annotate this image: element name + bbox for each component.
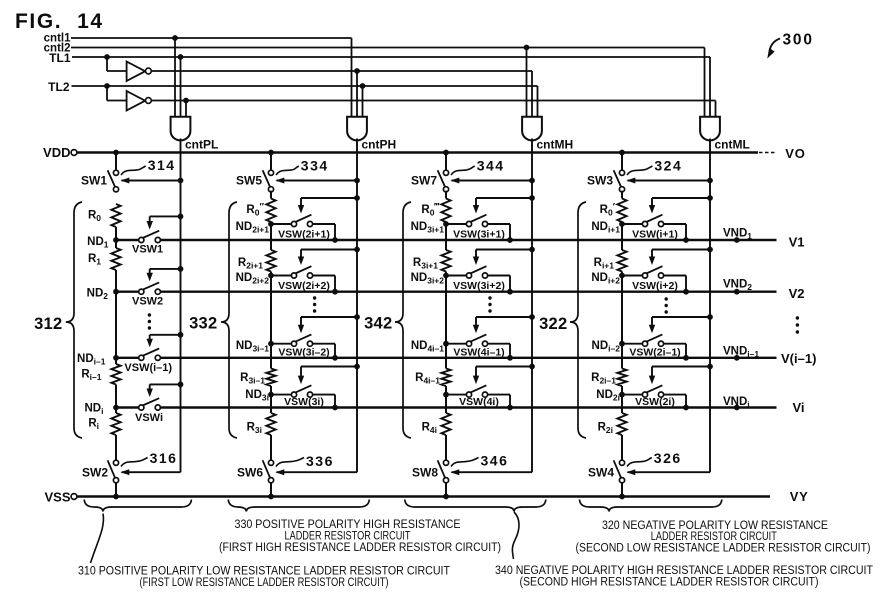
control tap cntML to VSW(2i-1) xyxy=(707,314,713,320)
wire VDD to switch SW1 xyxy=(115,153,117,171)
svg-text:R4i–1: R4i–1 xyxy=(415,372,440,386)
wire VSW(4i-1) to output line xyxy=(488,343,510,345)
control tap cntPL to VSW2 xyxy=(178,266,184,272)
resistor R0'' column 2 xyxy=(266,199,275,223)
wire VSW(2i-1) to output line xyxy=(664,343,686,345)
svg-text:ND3i+2: ND3i+2 xyxy=(411,272,445,286)
node ND3i+2 xyxy=(443,273,449,279)
leader for 326 xyxy=(627,458,652,467)
wire TL2 xyxy=(72,85,538,87)
resistor R0''' column 3 xyxy=(441,199,450,223)
svg-text:ND4i–1: ND4i–1 xyxy=(411,340,444,354)
leader for 316 xyxy=(121,458,148,467)
wire output line V(i&#8211;1) xyxy=(116,357,139,359)
wire output line Vi xyxy=(116,406,139,408)
group brace 322 xyxy=(570,202,586,438)
resistor R0' column 4 xyxy=(617,199,626,223)
svg-text:Ri–1: Ri–1 xyxy=(81,369,101,383)
wire VSW(2i) to output line xyxy=(664,394,686,396)
wire gate G4 input 1 from cntl2 xyxy=(704,48,706,118)
AND gate cntML xyxy=(700,117,720,141)
svg-text:VSW(4i): VSW(4i) xyxy=(459,396,499,408)
wire gate G2 input 2 xyxy=(356,71,358,118)
node column 3 row 4 xyxy=(443,392,449,398)
leader for 310 xyxy=(91,514,104,564)
svg-text:SW8: SW8 xyxy=(412,466,438,480)
svg-text:(FIRST LOW RESISTANCE LADDER R: (FIRST LOW RESISTANCE LADDER RESISTOR CI… xyxy=(140,577,389,589)
svg-text:cntPH: cntPH xyxy=(362,138,397,152)
wire VSW(3i-2) to output line xyxy=(313,343,335,345)
wire output line V1 xyxy=(116,239,139,241)
svg-text:342: 342 xyxy=(364,315,392,333)
wire TL1-inverted output xyxy=(151,70,532,72)
svg-text:326: 326 xyxy=(654,450,682,466)
svg-text:R3i: R3i xyxy=(247,422,262,436)
svg-text:300: 300 xyxy=(783,32,814,49)
junction VSS to ladder column 2 xyxy=(268,494,274,500)
wire chain column 2 top segment xyxy=(270,191,272,199)
control tap cntPH to VSW(2i+1) xyxy=(354,195,360,201)
junction VSW(4i-1) output xyxy=(507,355,513,361)
control tap cntMH to VSW(4i-1) xyxy=(529,314,535,320)
junction VSW(3i+1) output xyxy=(507,237,513,243)
svg-text:VSW(3i+2): VSW(3i+2) xyxy=(453,280,505,292)
svg-text:VNDi–1: VNDi–1 xyxy=(723,346,759,360)
switch VSW(i-1) xyxy=(139,355,144,360)
control tap cntMH to VSW(3i+1) xyxy=(529,195,535,201)
ellipsis dots column 2 xyxy=(313,296,316,299)
wire VSW(3i+1) to output line xyxy=(488,223,510,225)
svg-text:340 NEGATIVE POLARITY HIGH RES: 340 NEGATIVE POLARITY HIGH RESISTANCE LA… xyxy=(495,565,873,577)
control arrow cntMH to SW8 xyxy=(452,471,533,473)
inverter U2 xyxy=(127,91,146,111)
resistor R3i-1 column 2 xyxy=(266,369,275,387)
wire control bus cntPH from gate output xyxy=(356,139,358,473)
switch VSW(4i) xyxy=(446,394,466,396)
svg-text:VSW2: VSW2 xyxy=(132,296,163,308)
resistor R2i+1 column 2 xyxy=(266,250,275,272)
node VND2 xyxy=(734,289,740,295)
control arrow cntML to SW3 xyxy=(707,178,713,184)
node ND3i+1 xyxy=(443,221,449,227)
wire gate G4 input 3 from TL2-inverted xyxy=(715,101,717,118)
wire VSW(i+1) to output line xyxy=(664,223,686,225)
junction VSS to ladder column 4 xyxy=(619,494,625,500)
svg-text:NDi+2: NDi+2 xyxy=(591,272,620,286)
svg-text:Ri+1: Ri+1 xyxy=(594,257,615,271)
svg-text:R2i–1: R2i–1 xyxy=(591,372,616,386)
wire switch SW8 to VSS xyxy=(445,483,447,497)
svg-text:VSW(3i): VSW(3i) xyxy=(284,396,324,408)
control tap cntPH to VSW(2i+2) xyxy=(354,247,360,253)
resistor R0 column 1 xyxy=(111,204,120,227)
wire VSW(2i+1) to output line xyxy=(313,223,335,225)
svg-text:322: 322 xyxy=(539,315,567,333)
wire gate G3 input 3 from TL2 xyxy=(537,86,539,118)
svg-text:VSW(3i+1): VSW(3i+1) xyxy=(453,229,505,241)
switch VSW(3i) xyxy=(271,394,291,396)
svg-text:R3i+1: R3i+1 xyxy=(413,257,438,271)
wire gate G2 input 1 from cntl1 xyxy=(351,38,353,118)
wire TL2-inverted output xyxy=(151,100,715,102)
junction VSW(2i+2) output xyxy=(332,289,338,295)
svg-text:NDi–1: NDi–1 xyxy=(77,353,106,367)
control tap cntML to VSW(i+2) xyxy=(707,247,713,253)
junction VDD to ladder column 4 xyxy=(619,150,625,156)
svg-text:SW5: SW5 xyxy=(236,174,262,188)
node ND2i+2 xyxy=(268,273,274,279)
svg-text:(SECOND HIGH RESISTANCE LADDER: (SECOND HIGH RESISTANCE LADDER RESISTOR … xyxy=(520,576,819,588)
wire chain column 2 segment b xyxy=(270,272,272,369)
svg-text:VSW(i+2): VSW(i+2) xyxy=(632,280,678,292)
svg-text:ND3i: ND3i xyxy=(245,389,269,403)
wire chain bottom to switch SW2 xyxy=(115,435,117,460)
switch VSW(3i-2) xyxy=(271,343,291,345)
node ND2i xyxy=(619,392,625,398)
svg-text:R2i+1: R2i+1 xyxy=(238,257,263,271)
svg-text:R0′: R0′ xyxy=(600,202,616,218)
svg-text:R0: R0 xyxy=(88,210,101,224)
junction TL2-inverted to gate G1 xyxy=(183,98,189,104)
leader for 324 xyxy=(627,166,652,175)
under-brace for 320 xyxy=(580,500,722,512)
svg-text:ND2: ND2 xyxy=(87,288,109,302)
wire chain column 4 top segment xyxy=(621,191,623,199)
svg-text:TL2: TL2 xyxy=(48,80,70,94)
svg-text:FIG. 14: FIG. 14 xyxy=(15,10,104,33)
control tap cntML to VSW(i+1) xyxy=(707,195,713,201)
junction TL1-inverted to gate G2 xyxy=(354,68,360,74)
node VNDi xyxy=(734,405,740,411)
junction TL1 to inverter U1 xyxy=(104,54,110,60)
ellipsis dots right side xyxy=(796,316,799,319)
junction VSW(i+1) output xyxy=(683,237,689,243)
svg-text:V2: V2 xyxy=(789,286,805,301)
control tap cntPH to VSW(3i) xyxy=(354,364,360,370)
control arrow cntPL to SW1 xyxy=(178,178,184,184)
wire control bus cntML from gate output xyxy=(709,139,711,473)
resistor R4i column 3 xyxy=(441,413,450,435)
leader arrow for 300 xyxy=(770,39,781,53)
switch VSWi xyxy=(139,405,144,410)
svg-text:cntML: cntML xyxy=(715,138,750,152)
svg-text:TL1: TL1 xyxy=(49,51,71,65)
svg-text:314: 314 xyxy=(148,157,176,173)
wire chain bottom to switch SW6 xyxy=(270,435,272,460)
control arrow cntPH to SW6 xyxy=(277,471,358,473)
node NDi xyxy=(113,405,119,411)
wire chain column 1 segment Ri-1-Ri xyxy=(115,385,117,414)
wire VSW(2i+2) to output line xyxy=(313,275,335,277)
switch VSW(3i+1) xyxy=(446,223,466,225)
svg-text:ND2i+2: ND2i+2 xyxy=(236,272,270,286)
resistor R1 column 1 xyxy=(111,248,120,270)
switch VSW(2i+2) xyxy=(271,275,291,277)
wire gate G3 input 1 xyxy=(526,48,528,118)
inverter U1 xyxy=(127,62,146,82)
svg-text:V(i–1): V(i–1) xyxy=(781,351,816,366)
svg-text:VO: VO xyxy=(785,146,805,161)
wire switch SW4 to VSS xyxy=(621,483,623,497)
wire chain column 3 top segment xyxy=(445,191,447,199)
leader for 346 xyxy=(451,458,479,467)
junction VSS to ladder column 3 xyxy=(443,494,449,500)
ellipsis dots column 4 xyxy=(665,297,668,300)
svg-text:VSW(i–1): VSW(i–1) xyxy=(124,362,172,374)
wire chain column 4 segment b xyxy=(621,272,623,369)
switch VSW(i+1) xyxy=(622,223,642,225)
svg-text:ND3i–1: ND3i–1 xyxy=(236,340,269,354)
wire control bus cntPL from gate output xyxy=(180,139,182,473)
junction TL1 to gate G1 xyxy=(178,54,184,60)
wire TL1 to inverter U1 input xyxy=(106,57,108,71)
node NDi+2 xyxy=(619,273,625,279)
junction cntl1 to gate G1 xyxy=(172,35,178,41)
resistor R3i column 2 xyxy=(266,413,275,435)
wire VDD to switch SW3 xyxy=(621,153,623,171)
node ND4i-1 xyxy=(443,341,449,347)
svg-text:R1: R1 xyxy=(88,253,101,267)
wire control bus cntMH from gate output xyxy=(531,139,533,473)
wire chain column 1 segment R0-R1 xyxy=(115,227,117,248)
wire cntl1 xyxy=(71,37,352,39)
wire switch SW2 to VSS xyxy=(115,483,117,497)
junction TL2 to gate G2 xyxy=(360,83,366,89)
svg-text:312: 312 xyxy=(34,315,62,333)
svg-text:VSW(2i+2): VSW(2i+2) xyxy=(278,280,330,292)
AND gate cntMH xyxy=(522,117,542,141)
node ND2i+1 xyxy=(268,221,274,227)
group brace 342 xyxy=(395,202,411,438)
resistor R2i column 4 xyxy=(617,413,626,435)
svg-text:SW7: SW7 xyxy=(411,174,437,188)
svg-text:VSW1: VSW1 xyxy=(132,244,163,256)
terminal VSS xyxy=(71,494,77,500)
svg-text:V1: V1 xyxy=(789,235,805,250)
wire VSW(3i) to output line xyxy=(313,394,335,396)
control tap cntPL to VSWi xyxy=(178,382,184,388)
svg-text:SW3: SW3 xyxy=(587,174,613,188)
svg-text:SW1: SW1 xyxy=(81,174,107,188)
wire chain bottom to switch SW4 xyxy=(621,435,623,460)
switch VSW(i+2) xyxy=(622,275,642,277)
junction VSW(i+2) output xyxy=(683,289,689,295)
node ND3i xyxy=(268,392,274,398)
svg-text:ND3i+1: ND3i+1 xyxy=(411,221,445,235)
node ND3i-1 xyxy=(268,341,274,347)
junction VDD to ladder column 3 xyxy=(443,150,449,156)
svg-text:R0″: R0″ xyxy=(246,202,264,218)
node NDi-2 xyxy=(619,341,625,347)
under-brace for 340 xyxy=(405,500,546,512)
svg-text:VSW(4i–1): VSW(4i–1) xyxy=(453,346,504,358)
node VND1 xyxy=(734,237,740,243)
leader for 336 xyxy=(276,458,304,467)
svg-text:336: 336 xyxy=(306,453,334,469)
wire chain column 3 segment a xyxy=(445,222,447,250)
switch VSW(2i+1) xyxy=(271,223,291,225)
svg-text:R2i: R2i xyxy=(598,422,613,436)
ellipsis dots column 1 xyxy=(148,313,151,316)
svg-text:332: 332 xyxy=(189,315,217,333)
switch VSW1 xyxy=(139,237,144,242)
node ND2 xyxy=(113,289,119,295)
junction VDD to ladder column 2 xyxy=(268,150,274,156)
svg-text:(FIRST HIGH RESISTANCE LADDER: (FIRST HIGH RESISTANCE LADDER RESISTOR C… xyxy=(219,542,501,554)
leader for 340 xyxy=(512,512,519,559)
switch VSW(4i-1) xyxy=(446,343,466,345)
wire cntl2 xyxy=(71,47,705,49)
switch SW8 xyxy=(443,460,448,465)
junction VSW(2i+1) output xyxy=(332,237,338,243)
under-brace for 330 xyxy=(228,500,369,512)
wire gate G1 input 3 xyxy=(185,101,187,118)
svg-text:VSW(2i): VSW(2i) xyxy=(635,396,675,408)
wire chain column 3 segment c xyxy=(445,386,447,413)
switch SW1 xyxy=(113,170,118,175)
control tap cntML to VSW(2i) xyxy=(707,364,713,370)
switch SW2 xyxy=(113,460,118,465)
svg-text:R0‴: R0‴ xyxy=(421,202,439,218)
svg-text:VSW(2i–1): VSW(2i–1) xyxy=(629,346,680,358)
control arrow cntMH to SW7 xyxy=(529,178,535,184)
switch SW7 xyxy=(443,170,448,175)
group brace 332 xyxy=(221,202,237,438)
node NDi+1 xyxy=(619,221,625,227)
svg-text:VDD: VDD xyxy=(43,145,70,160)
svg-text:ND2i: ND2i xyxy=(596,389,620,403)
wire output line V2 xyxy=(116,291,139,293)
svg-text:ND2i+1: ND2i+1 xyxy=(236,221,270,235)
control arrow cntML to SW4 xyxy=(628,471,711,473)
svg-text:334: 334 xyxy=(301,157,329,173)
svg-text:VSW(3i–2): VSW(3i–2) xyxy=(278,346,329,358)
wire chain column 1 segment R1-Ri-1 xyxy=(115,270,117,364)
junction cntl2 to gate G3 xyxy=(524,45,530,51)
node VNDi-1 xyxy=(734,355,740,361)
switch VSW(3i+2) xyxy=(446,275,466,277)
svg-text:VSW(i+1): VSW(i+1) xyxy=(632,229,678,241)
group brace 312 xyxy=(66,202,82,438)
resistor Ri column 1 xyxy=(111,413,120,435)
wire chain bottom to switch SW8 xyxy=(445,435,447,460)
switch VSW(2i) xyxy=(622,394,642,396)
wire switch SW6 to VSS xyxy=(270,483,272,497)
svg-text:330 POSITIVE POLARITY HIGH RES: 330 POSITIVE POLARITY HIGH RESISTANCE xyxy=(235,519,461,531)
wire VSS rail xyxy=(77,495,770,497)
svg-text:(SECOND LOW RESISTANCE LADDER: (SECOND LOW RESISTANCE LADDER RESISTOR C… xyxy=(576,542,871,554)
AND gate cntPL xyxy=(171,117,191,141)
svg-text:NDi–2: NDi–2 xyxy=(592,340,621,354)
wire VDD to switch SW5 xyxy=(270,153,272,171)
AND gate cntPH xyxy=(347,117,367,141)
wire VSW(3i+2) to output line xyxy=(488,275,510,277)
wire chain column 3 segment b xyxy=(445,272,447,369)
svg-text:Ri: Ri xyxy=(88,418,99,432)
control arrow cntPH to SW5 xyxy=(354,178,360,184)
svg-text:VSWi: VSWi xyxy=(135,412,163,424)
svg-text:LADDER RESISTOR CIRCUIT: LADDER RESISTOR CIRCUIT xyxy=(285,531,411,543)
wire gate G1 input 2 xyxy=(180,57,182,118)
svg-text:Vi: Vi xyxy=(793,400,805,415)
switch SW4 xyxy=(619,460,624,465)
wire gate G2 input 3 xyxy=(362,86,364,118)
terminal VDD xyxy=(71,150,77,156)
node ND1 xyxy=(113,237,119,243)
svg-text:316: 316 xyxy=(150,450,178,466)
svg-text:VSS: VSS xyxy=(44,490,70,505)
leader for 344 xyxy=(451,166,475,175)
wire gate G1 input 1 xyxy=(174,38,176,118)
control tap cntMH to VSW(3i+2) xyxy=(529,247,535,253)
leader for 314 xyxy=(121,166,146,175)
under-brace for 310 xyxy=(84,500,191,512)
svg-text:344: 344 xyxy=(477,157,505,173)
svg-text:NDi: NDi xyxy=(85,403,104,417)
junction VSW(3i) output xyxy=(332,405,338,411)
resistor R3i+1 column 3 xyxy=(441,250,450,272)
wire chain column 2 segment c xyxy=(270,386,272,413)
wire chain column 4 segment c xyxy=(621,386,623,413)
svg-text:R4i: R4i xyxy=(422,422,437,436)
switch SW5 xyxy=(268,170,273,175)
node NDi-1 xyxy=(113,355,119,361)
svg-text:VY: VY xyxy=(790,489,809,504)
wire VSW(4i) to output line xyxy=(488,394,510,396)
svg-text:LADDER RESISTOR CIRCUIT: LADDER RESISTOR CIRCUIT xyxy=(651,531,777,543)
junction VSS to ladder column 1 xyxy=(113,494,119,500)
wire TL1 xyxy=(72,56,710,58)
svg-text:SW2: SW2 xyxy=(82,466,108,480)
control tap cntPL to VSW1 xyxy=(178,214,184,220)
junction VSW(2i) output xyxy=(683,405,689,411)
leader for 334 xyxy=(276,166,299,175)
ellipsis dots column 3 xyxy=(488,296,491,299)
svg-text:SW4: SW4 xyxy=(588,466,614,480)
resistor Ri-1 column 1 xyxy=(111,364,120,385)
svg-text:SW6: SW6 xyxy=(237,466,263,480)
junction TL2 to inverter U2 xyxy=(104,83,110,89)
wire gate G3 input 2 from TL1-inverted xyxy=(531,71,533,118)
svg-text:ND1: ND1 xyxy=(87,236,109,250)
junction VDD to ladder column 1 xyxy=(113,150,119,156)
junction VSW(3i+2) output xyxy=(507,289,513,295)
junction VSW(2i-1) output xyxy=(683,355,689,361)
svg-text:346: 346 xyxy=(481,453,509,469)
svg-text:R3i–1: R3i–1 xyxy=(240,372,265,386)
wire VSW(i+2) to output line xyxy=(664,275,686,277)
wire chain column 4 segment a xyxy=(621,222,623,250)
svg-text:VSW(2i+1): VSW(2i+1) xyxy=(278,229,330,241)
svg-text:cntPL: cntPL xyxy=(185,138,218,152)
svg-text:324: 324 xyxy=(654,158,682,174)
wire chain column 2 segment a xyxy=(270,222,272,250)
switch VSW2 xyxy=(139,289,144,294)
control tap cntPL to VSW(i-1) xyxy=(178,332,184,338)
switch SW3 xyxy=(619,170,624,175)
junction VSW(4i) output xyxy=(507,405,513,411)
switch SW6 xyxy=(268,460,273,465)
svg-text:310 POSITIVE POLARITY LOW RESI: 310 POSITIVE POLARITY LOW RESISTANCE LAD… xyxy=(78,566,450,578)
resistor R4i-1 column 3 xyxy=(441,369,450,387)
control arrow cntPL to SW2 xyxy=(122,471,181,473)
wire VDD rail xyxy=(77,151,758,153)
wire gate G4 input 2 from TL1 xyxy=(709,57,711,118)
svg-text:cntMH: cntMH xyxy=(537,138,574,152)
wire TL2 to inverter U2 input xyxy=(106,86,108,101)
svg-text:NDi+1: NDi+1 xyxy=(591,221,620,235)
junction VSW(3i-2) output xyxy=(332,355,338,361)
